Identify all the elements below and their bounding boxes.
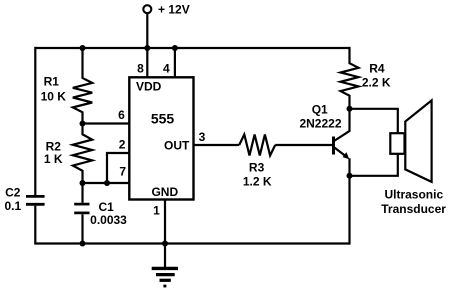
svg-text:Transducer: Transducer (381, 202, 446, 216)
wire pin 4 stub (174, 48, 176, 77)
top rail wire (35, 47, 349, 49)
junction C1/bottom rail (80, 241, 86, 247)
junction R4/collector/transducer (347, 106, 353, 112)
bottom rail wire (35, 242, 349, 244)
svg-text:OUT: OUT (164, 139, 190, 153)
transducer horn (405, 100, 431, 181)
wire pin 3 / OUT (194, 144, 240, 146)
svg-text:R4: R4 (369, 61, 385, 75)
svg-text:2N2222: 2N2222 (299, 117, 341, 131)
svg-text:7: 7 (119, 165, 126, 179)
svg-text:R1: R1 (44, 74, 60, 88)
Q1 emitter diagonal (334, 147, 348, 157)
svg-text:+ 12V: + 12V (158, 3, 190, 17)
capacitor C2 (26, 195, 45, 198)
svg-text:2: 2 (119, 138, 126, 152)
svg-text:VDD: VDD (136, 79, 162, 93)
svg-text:Ultrasonic: Ultrasonic (384, 188, 443, 202)
transistor Q1 (334, 131, 351, 160)
svg-text:C1: C1 (99, 200, 115, 214)
+12V terminal circle (143, 5, 151, 13)
junction pin1/ground (162, 241, 168, 247)
svg-text:3: 3 (199, 130, 206, 144)
junction pin2 drop on pin7 wire (104, 180, 110, 186)
op-amp-style IC U1 555 box (129, 77, 193, 199)
junction +12V/pin8 (144, 45, 150, 51)
resistor R1 (73, 48, 92, 124)
svg-text:Q1: Q1 (312, 102, 328, 116)
svg-text:GND: GND (151, 185, 178, 199)
wire pin 6 (83, 122, 130, 124)
svg-text:1.2 K: 1.2 K (243, 174, 272, 188)
wire transducer bottom lead (350, 154, 398, 176)
transducer driver box (390, 133, 404, 154)
junction R1/top rail (80, 45, 86, 51)
Q1 base bar (332, 137, 335, 155)
svg-text:6: 6 (118, 108, 125, 122)
wire pin 8 stub (146, 48, 148, 77)
resistor R4 (341, 47, 359, 109)
svg-text:555: 555 (151, 110, 175, 126)
ground bar 1 (152, 267, 178, 270)
wire transducer top lead (350, 109, 398, 133)
resistor R3 (239, 135, 275, 156)
ground bar 4 (163, 285, 166, 288)
ground stub wire (164, 244, 166, 268)
svg-text:C2: C2 (5, 186, 21, 200)
svg-text:0.0033: 0.0033 (90, 213, 127, 227)
svg-text:1 K: 1 K (44, 152, 63, 166)
left rail wire (34, 47, 36, 195)
wire pin 2 (107, 153, 129, 183)
wire R3 to base (275, 144, 332, 146)
Q1 collector diagonal (334, 131, 350, 141)
resistor R2 (73, 124, 92, 184)
ground bar 2 (156, 273, 175, 276)
svg-text:10 K: 10 K (41, 90, 67, 104)
ground (152, 244, 178, 287)
junction R1/R2/pin6 (80, 121, 86, 127)
junction R2/C1/pin7 (80, 180, 86, 186)
ground bar 3 (160, 279, 171, 282)
wire pin 1 stub (164, 200, 166, 244)
svg-text:0.1: 0.1 (5, 199, 22, 213)
svg-text:1: 1 (153, 204, 160, 218)
svg-text:R3: R3 (249, 160, 265, 174)
svg-text:2.2 K: 2.2 K (362, 76, 391, 90)
svg-text:4: 4 (163, 61, 170, 75)
wire pin 7 (83, 182, 130, 184)
svg-text:8: 8 (137, 61, 144, 75)
wire emitter down (348, 158, 350, 244)
junction emitter/transducer (347, 173, 353, 179)
junction pin4 (172, 45, 178, 51)
Q1 emitter arrowhead (343, 152, 350, 159)
capacitor C1 (81, 183, 83, 203)
wire collector up (348, 109, 350, 131)
wire +12V drop to top rail (146, 13, 148, 48)
